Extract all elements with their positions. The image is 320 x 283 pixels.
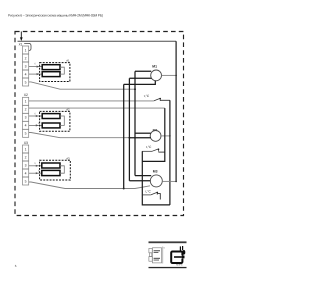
wire X2 pin4 to A2 [29,124,42,126]
heating element EK6 [42,170,60,175]
wire M2 top to bus A [135,132,151,134]
wire M2 mid to bus B [129,137,150,139]
connector X1 pin numbers [25,48,27,84]
wire A1 series link [60,67,64,74]
wire M1 bottom to bus C [124,81,156,85]
svg-text:t,°C: t,°C [146,190,152,194]
node junction on vertical A [134,88,136,90]
wire X2 pin1 to thermal switch SK1 [29,100,154,102]
vertical bus B wire [128,78,130,181]
svg-text:2: 2 [25,155,27,159]
motor M3 [150,175,162,187]
wire X3 pin5 diagonal [29,182,150,189]
svg-text:Рисунок 6 – Электрическая схем: Рисунок 6 – Электрическая схема машины К… [8,14,103,18]
svg-text:X3: X3 [24,141,28,145]
svg-text:4: 4 [25,124,27,128]
wire M1 right to supply bus [162,74,177,76]
mains input arrow [20,32,23,42]
wire mid return bus [142,108,170,205]
connector X2 pin numbers [25,100,27,136]
wire SK1 output [160,99,170,101]
wire M1 mid to bus B [129,77,151,79]
wire M3 mid to bus B [129,180,150,182]
wire X2 pin5 diagonal [29,133,129,138]
heating element EK2 [42,72,60,77]
wire M2 right to return bus [161,135,170,137]
wire X1 pin3 to A1 [29,66,42,68]
connector X3 [23,145,29,185]
vertical bus A wire [134,71,136,175]
wire X3 pin4 to A3 [29,172,42,174]
heater unit A1 dashed box [40,63,70,82]
svg-text:t,°C: t,°C [146,145,152,149]
svg-text:3: 3 [25,116,27,120]
heating element EK1 [42,65,60,70]
wire SK3 output [157,194,160,200]
svg-text:X2: X2 [24,93,28,97]
svg-text:1: 1 [25,48,27,52]
wire M3 top to bus A [135,175,151,177]
svg-text:M1: M1 [152,64,157,68]
wire X1 pin1 hook to rail [24,43,31,50]
legend plug icon [171,246,185,263]
wire X1 pin5 diagonal [29,82,135,89]
thermal switch SK3 [142,192,157,195]
wire A3 series link [60,166,64,173]
schematic dashed enclosure border [15,32,184,216]
wire A2 series link [60,116,64,125]
svg-text:X1: X1 [19,43,23,47]
svg-text:3: 3 [25,163,27,167]
wire X2 pin3 to A2 [29,115,42,117]
svg-text:5: 5 [25,132,27,136]
svg-text:4: 4 [25,171,27,175]
legend schematic fragment [152,248,161,263]
svg-text:2: 2 [25,56,27,60]
legend stamp box bottom bar [149,267,187,268]
heater unit A2 dashed box [40,111,70,131]
wire M1 top to bus A [135,70,151,72]
motor M1 [151,70,162,81]
heating element EK3 [42,114,60,119]
node junction on vertical C [123,188,125,190]
svg-text:5: 5 [25,80,27,84]
svg-text:t,°C: t,°C [144,94,150,98]
svg-text:1: 1 [25,100,27,104]
connector X1 [23,46,29,86]
connector X3 pin numbers [25,147,27,183]
heating element EK5 [42,163,60,168]
svg-text:1: 1 [25,147,27,151]
wire X1 pin4 to A1 [29,73,42,75]
legend divider line [162,247,164,264]
svg-text:5: 5 [25,179,27,183]
node M3 bus junction [175,181,177,183]
legend stamp box top bar [149,241,187,243]
vertical return bus wire [169,100,171,205]
svg-text:МЛРБ: МЛРБ [176,263,183,266]
right supply bus wire [175,41,177,181]
node M1 bus junction [175,75,177,77]
legend connector fragment [149,248,152,261]
wire X3 pin3 to A3 [29,165,42,167]
node M2 bus junction [169,135,171,137]
svg-text:2: 2 [25,108,27,112]
thermal switch SK1 [154,98,160,101]
svg-text:4: 4 [25,72,27,76]
svg-text:M3: M3 [153,170,158,174]
heating element EK4 [42,123,60,128]
motor M2 [150,131,161,142]
vertical bus C wire [123,84,125,188]
thermal switch SK2 [142,149,158,152]
node junction on vertical B [128,137,130,139]
top supply rail wire [18,40,177,42]
svg-text:3: 3 [25,64,27,68]
connector X2 [23,97,29,137]
wire X2 pin2 to bus [29,107,165,109]
heater unit A3 dashed box [40,160,71,180]
wire SK2 output to mid bus [158,151,164,153]
wire M3 right to supply bus [162,180,176,182]
